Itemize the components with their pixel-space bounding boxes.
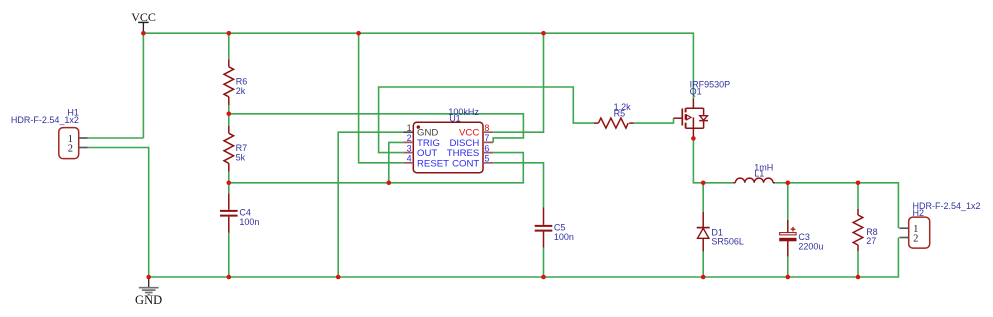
junction R7/C4/THRES node [227, 181, 232, 186]
svg-text:2200u: 2200u [798, 241, 823, 251]
wire VCC top rail [143, 33, 693, 138]
connector H1 [11, 107, 88, 158]
junction bottom rail at R8 [856, 275, 861, 280]
junction R6/R7/DISCH node [227, 112, 232, 117]
junction VCC rail at R6 [227, 31, 232, 36]
svg-text:R6: R6 [236, 77, 248, 87]
wire U1 pin1 GND to bottom rail [338, 132, 403, 277]
junction TRIG tap [387, 181, 392, 186]
junction bottom rail at D1 [701, 275, 706, 280]
svg-text:Q1: Q1 [690, 86, 702, 96]
U1 pin 1 stub [403, 131, 413, 133]
wire DISCH net (R6/R7 node to pin 7) [229, 114, 524, 143]
wire VCC rail to pin8 [493, 33, 543, 132]
resistor R7 [224, 114, 247, 183]
power flag VCC [131, 10, 156, 33]
svg-text:C3: C3 [798, 232, 810, 242]
wire GND bottom rail [149, 238, 899, 278]
inductor L1 [733, 162, 775, 182]
capacitor C4 [220, 183, 259, 277]
svg-text:2k: 2k [236, 86, 246, 96]
timer IC U1 (NE555) [403, 107, 493, 173]
svg-text:HDR-F-2.54_1x2: HDR-F-2.54_1x2 [11, 115, 79, 125]
capacitor C5 [535, 208, 574, 278]
wire H1 pin2 down to GND [88, 148, 149, 278]
wire R5 to Q1 gate [634, 118, 674, 123]
junction bottom rail at C5 [541, 275, 546, 280]
junction Q1 drain [691, 136, 696, 141]
wire Q1 drain to switch node [693, 137, 733, 183]
svg-text:SR506L: SR506L [711, 236, 744, 246]
junction VCC rail at H1 drop [141, 31, 146, 36]
svg-text:VCC: VCC [131, 10, 156, 24]
wire TRIG-THRES net (R7/C4 node, pin 2, pin 6) [229, 142, 524, 182]
transistor Q1 (IRF9530P P-MOSFET) [674, 80, 731, 137]
svg-text:7: 7 [484, 133, 489, 143]
svg-text:RESET: RESET [417, 158, 449, 169]
svg-text:6: 6 [484, 143, 489, 153]
ground symbol GND [135, 277, 162, 307]
svg-text:8: 8 [484, 123, 489, 133]
svg-text:2: 2 [407, 133, 412, 143]
svg-text:5: 5 [484, 154, 489, 164]
svg-text:100n: 100n [554, 232, 574, 242]
wire OUT pin3 to R5 [379, 87, 594, 153]
svg-text:100n: 100n [239, 217, 259, 227]
junction VCC rail at RESET drop [356, 31, 361, 36]
junction output rail at C3 [786, 181, 791, 186]
svg-text:GND: GND [135, 293, 162, 307]
svg-text:H2: H2 [913, 208, 925, 218]
svg-text:2: 2 [913, 234, 918, 245]
junction bottom rail at U1 GND drop [336, 275, 341, 280]
svg-text:R5: R5 [614, 109, 626, 119]
wire H1 pin1 to VCC rail [88, 137, 144, 139]
svg-text:C4: C4 [239, 207, 251, 217]
junction output rail at R8 [856, 181, 861, 186]
diode D1 (SR506L schottky) [697, 183, 744, 277]
wire switch node output rail [775, 183, 898, 228]
junction bottom rail at GND [146, 275, 151, 280]
svg-text:4: 4 [407, 154, 412, 164]
svg-text:R7: R7 [236, 143, 248, 153]
svg-text:3: 3 [407, 143, 412, 153]
connector H2 [899, 201, 980, 248]
svg-text:L1: L1 [754, 168, 764, 178]
capacitor C3 (2200u polarized) [780, 183, 824, 277]
junction VCC rail at pin8 riser [541, 31, 546, 36]
svg-text:CONT: CONT [452, 158, 479, 169]
svg-text:5k: 5k [236, 153, 246, 163]
svg-text:27: 27 [866, 236, 876, 246]
svg-text:U1: U1 [449, 113, 461, 123]
resistor R6 [224, 33, 247, 114]
junction bottom rail at C3 [786, 275, 791, 280]
svg-text:1: 1 [407, 123, 412, 133]
wire RESET pin4 to VCC rail [359, 33, 404, 163]
junction switch node at D1 [701, 181, 706, 186]
wire CONT pin5 to C5 [493, 163, 543, 208]
U1 right pin stubs 8,7,6,5 [483, 132, 493, 163]
svg-text:2: 2 [68, 143, 73, 154]
resistor R5 [594, 102, 634, 128]
resistor R8 [853, 183, 878, 277]
junction bottom rail at C4 [227, 275, 232, 280]
